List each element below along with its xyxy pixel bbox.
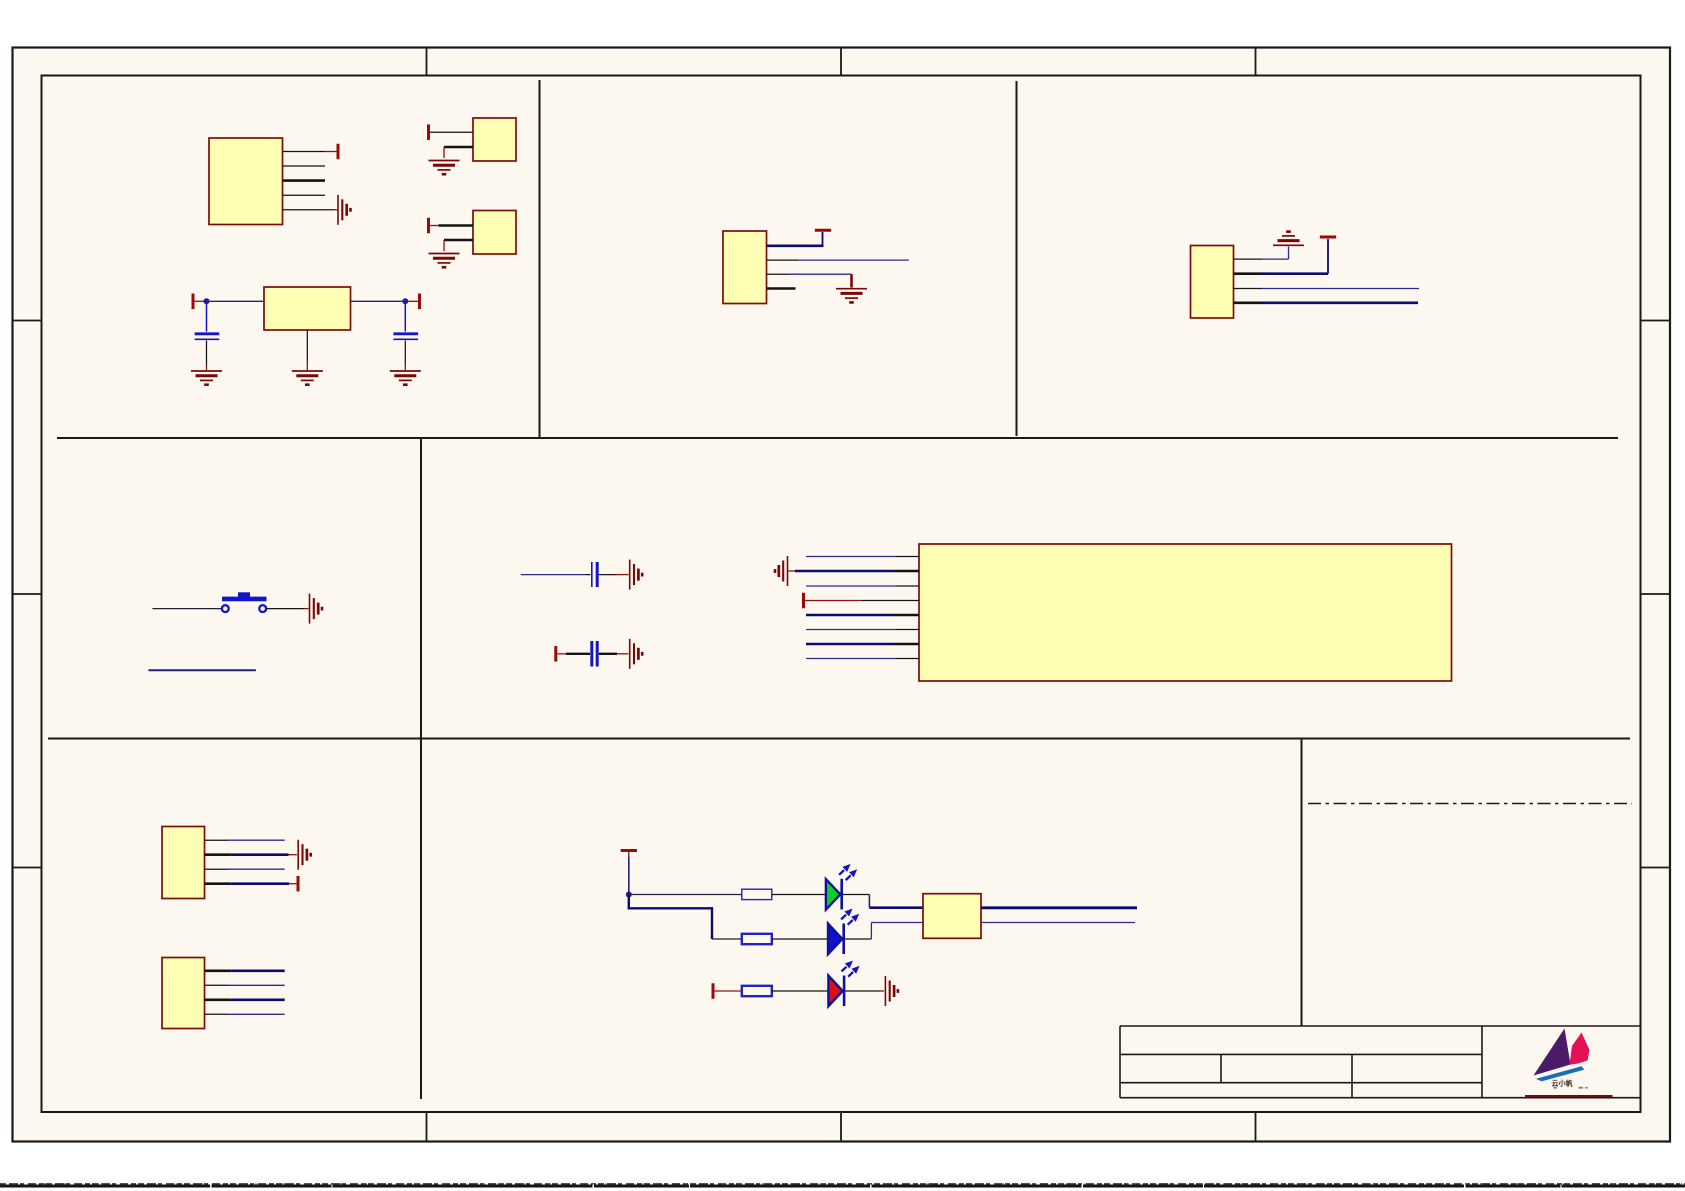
U3 pin 3 wire xyxy=(767,273,791,275)
U2 output wire xyxy=(351,300,406,302)
wire xyxy=(231,882,289,885)
wire xyxy=(772,894,825,896)
ground U1 pin5 xyxy=(338,195,351,225)
svg-text:云小帆: 云小帆 xyxy=(1552,1079,1573,1088)
component U4 xyxy=(1191,246,1234,319)
LED D3 red xyxy=(828,976,842,1007)
section divider vertical top-1 xyxy=(539,80,541,438)
wire xyxy=(206,365,208,371)
wire xyxy=(586,574,591,576)
section divider horizontal 2 xyxy=(48,738,1630,740)
B1 pin 1 wire xyxy=(430,131,473,133)
capacitor C3 wire xyxy=(521,574,586,576)
power bar LED rail xyxy=(621,850,637,852)
ground U2 xyxy=(292,371,323,385)
U2 input wire xyxy=(207,300,265,302)
pin xyxy=(896,585,919,587)
power bar U4 xyxy=(1320,236,1336,238)
J2 pin 2 wire xyxy=(205,984,229,986)
LED D3 arrows xyxy=(842,961,860,977)
wire down xyxy=(850,274,853,287)
power bar B1 xyxy=(428,124,430,140)
wire xyxy=(790,273,852,275)
LED D1 arrows xyxy=(839,864,857,880)
wire xyxy=(795,570,893,573)
power bar VOUT xyxy=(419,294,421,310)
J2 pin 3 wire xyxy=(205,998,232,1001)
wire xyxy=(289,854,297,856)
U5 pin 8 wire xyxy=(806,658,896,660)
wire branch down xyxy=(628,895,630,909)
wire xyxy=(404,365,406,371)
logo hull stripe xyxy=(1536,1066,1585,1081)
U4 pin 2 wire xyxy=(1234,272,1263,275)
wire to K1 pin2 xyxy=(871,922,923,924)
wire xyxy=(1262,272,1328,275)
U4 pin 4 wire xyxy=(1234,301,1263,304)
logo red underline xyxy=(1525,1095,1613,1097)
wire xyxy=(228,868,285,870)
resistor R2 xyxy=(742,934,772,944)
J1 pin 1 wire xyxy=(205,839,229,841)
wire xyxy=(304,608,309,610)
wire xyxy=(566,653,590,655)
J2 pin 4 wire xyxy=(205,1013,229,1015)
capacitor C2 lead xyxy=(404,301,406,331)
wire xyxy=(231,853,289,856)
wire xyxy=(443,147,445,158)
pin xyxy=(893,643,919,646)
U3 pin 2 wire xyxy=(767,259,799,261)
wire xyxy=(772,990,828,992)
connector J2 xyxy=(162,958,205,1029)
power bar VIN xyxy=(192,294,194,310)
wire to R3 xyxy=(715,990,742,992)
J1 pin 4 wire xyxy=(205,882,231,885)
wire xyxy=(228,839,285,841)
power bar B2 xyxy=(428,218,430,234)
switch SW1 xyxy=(222,592,267,612)
pin xyxy=(896,556,919,558)
bottom scan bar xyxy=(0,1184,1685,1187)
wire xyxy=(1262,258,1289,260)
wire xyxy=(289,883,297,885)
wire xyxy=(228,1013,285,1015)
junction node xyxy=(402,298,408,304)
component U2 regulator xyxy=(264,287,351,330)
logo crimson sail xyxy=(1570,1033,1590,1065)
ground D3 xyxy=(885,976,898,1006)
U5 pin 3 wire xyxy=(806,585,896,587)
LED D2 arrows xyxy=(841,909,859,925)
C3 right wire xyxy=(599,574,616,576)
wire up xyxy=(870,923,872,940)
connector K1 xyxy=(923,894,981,939)
wire xyxy=(325,151,337,153)
wire rail down xyxy=(628,857,630,895)
wire to R1 xyxy=(629,894,742,896)
wire xyxy=(845,990,880,992)
capacitor C1 plates xyxy=(195,332,220,335)
component B2 xyxy=(473,211,516,255)
section divider vertical left xyxy=(420,438,422,1099)
section divider vertical bottom-right xyxy=(1301,739,1303,1027)
U4 pin 1 wire xyxy=(1234,258,1263,260)
LED D1 green xyxy=(826,879,840,910)
section divider horizontal 1 xyxy=(57,437,1618,439)
J1 pin 3 wire xyxy=(205,868,229,870)
U1 pin 4 wire xyxy=(283,194,326,196)
junction node LED rail xyxy=(626,892,632,898)
capacitor C4 left wire xyxy=(558,653,567,655)
net stub wire xyxy=(148,669,256,671)
ground C1 xyxy=(191,371,222,385)
ground U5 pin2 xyxy=(775,556,788,586)
ground U3 xyxy=(836,289,867,303)
capacitor C3 xyxy=(592,562,597,587)
dash-dot revision line xyxy=(1308,803,1632,805)
ground B1 xyxy=(429,161,460,175)
wire to R2 xyxy=(712,938,742,940)
U1 pin 5 wire xyxy=(283,209,335,211)
resistor R1 xyxy=(742,889,772,899)
wire xyxy=(628,852,630,857)
wire xyxy=(232,969,285,972)
resistor R3 xyxy=(742,986,772,996)
logo purple sail xyxy=(1534,1029,1571,1076)
U5 pin 7 wire xyxy=(806,643,893,646)
power bar U5 pin4 xyxy=(803,593,805,609)
SW1 right wire xyxy=(266,608,303,610)
wire xyxy=(822,232,824,247)
capacitor C4 xyxy=(592,641,597,667)
component U3 xyxy=(723,231,767,304)
ground J1 xyxy=(298,840,311,870)
wire xyxy=(617,653,629,655)
U5 pin 2 wire xyxy=(789,570,796,572)
K1 pin 1 net wire xyxy=(981,906,1137,909)
wire xyxy=(772,938,827,940)
pin xyxy=(896,658,919,660)
wire xyxy=(628,907,712,909)
component B1 xyxy=(473,118,516,161)
capacitor C1 lead xyxy=(206,301,208,331)
wire xyxy=(334,209,337,211)
K1 pin 2 net wire xyxy=(981,922,1135,924)
LED D2 blue xyxy=(828,924,842,955)
junction node xyxy=(204,298,210,304)
B2 pin 2 wire xyxy=(444,239,473,242)
logo small marks xyxy=(1554,1087,1557,1089)
wire xyxy=(228,984,285,986)
U3 pin 4 wire xyxy=(767,287,796,290)
power bar R3 xyxy=(712,983,714,999)
wire xyxy=(616,574,629,576)
pin xyxy=(862,600,919,602)
wire down xyxy=(868,895,870,908)
ground C4 xyxy=(630,639,643,669)
wire xyxy=(232,998,285,1001)
B2 pin 1 wire xyxy=(439,224,474,227)
wire xyxy=(845,938,871,940)
U4 pin 3 wire xyxy=(1234,288,1263,290)
connector J1 xyxy=(162,827,205,899)
U5 pin 6 wire xyxy=(806,629,896,631)
U3 pin 1 wire xyxy=(767,245,824,248)
wire xyxy=(880,990,884,992)
power bar J1 xyxy=(297,876,299,892)
switch SW1 wire xyxy=(152,608,221,610)
component U1 xyxy=(209,138,283,225)
ground B2 xyxy=(429,254,460,268)
pin xyxy=(896,629,919,631)
wire xyxy=(195,300,207,302)
ground C3 xyxy=(630,560,643,590)
TITLEBLOCK xyxy=(1120,1026,1641,1098)
wire to K1 xyxy=(869,906,923,909)
J1 pin 2 wire xyxy=(205,853,231,856)
wire net xyxy=(1262,301,1418,304)
wire up xyxy=(1327,239,1329,274)
C4 right wire xyxy=(599,653,617,655)
U2 ground pin wire xyxy=(306,330,308,362)
capacitor C2 lower lead xyxy=(404,341,406,365)
wire net xyxy=(798,259,909,261)
wire xyxy=(306,362,308,370)
U5 pin 5 wire xyxy=(806,614,893,617)
ground C2 xyxy=(390,371,421,385)
component U5 main module xyxy=(919,544,1452,681)
wire xyxy=(843,894,869,896)
capacitor C2 plates xyxy=(393,332,418,335)
wire up xyxy=(1288,247,1290,260)
pin xyxy=(893,614,919,617)
U5 pin 4 wire xyxy=(805,600,862,602)
B1 pin 2 wire xyxy=(444,146,473,149)
section divider vertical top-2 xyxy=(1016,81,1018,436)
U1 pin 2 wire xyxy=(283,165,326,167)
capacitor C1 lower lead xyxy=(206,341,208,365)
wire xyxy=(443,240,445,251)
power bar VCC U1 xyxy=(337,144,339,160)
wire xyxy=(430,225,439,227)
wire down xyxy=(711,907,713,939)
U1 pin 3 wire xyxy=(283,179,326,182)
U1 pin 1 wire xyxy=(283,151,326,153)
pin xyxy=(893,570,919,573)
wire net xyxy=(1262,288,1419,290)
ground U4 inverted xyxy=(1273,232,1304,246)
wire xyxy=(405,300,418,302)
ground SW1 xyxy=(310,594,323,624)
J2 pin 1 wire xyxy=(205,969,232,972)
U5 pin 1 wire xyxy=(806,556,896,558)
power bar C4 xyxy=(555,646,557,662)
power bar U3 xyxy=(815,229,831,231)
